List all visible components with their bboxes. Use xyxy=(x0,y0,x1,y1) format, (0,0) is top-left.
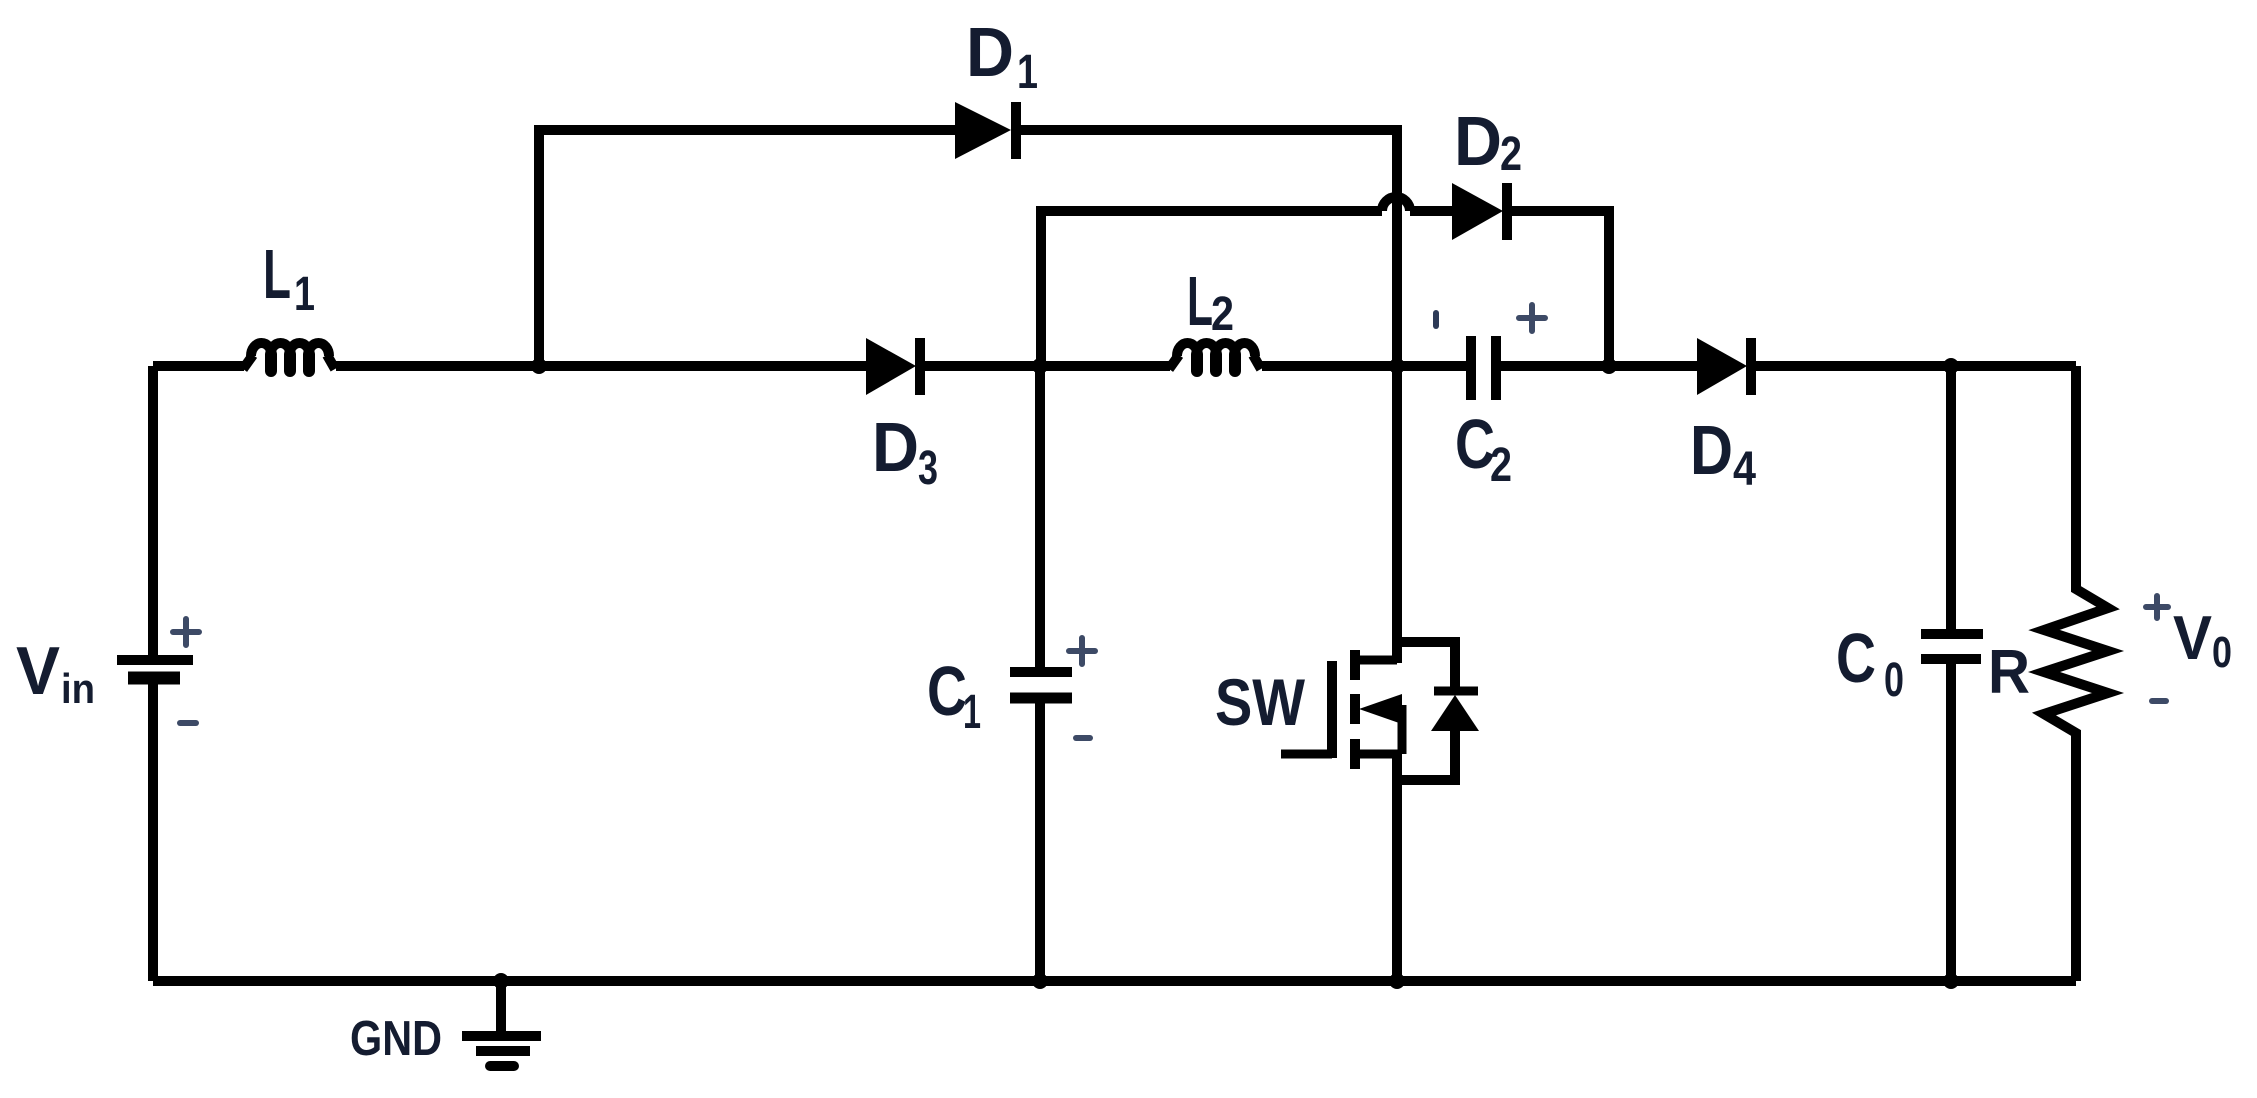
svg-text:4: 4 xyxy=(1733,443,1756,496)
svg-text:R: R xyxy=(1988,638,2030,707)
svg-text:SW: SW xyxy=(1215,665,1306,739)
svg-text:in: in xyxy=(61,665,95,712)
svg-text:1: 1 xyxy=(963,686,981,739)
svg-text:3: 3 xyxy=(918,442,938,495)
svg-text:2: 2 xyxy=(1490,439,1512,492)
svg-text:D: D xyxy=(1690,411,1733,489)
svg-text:D: D xyxy=(872,408,919,486)
svg-text:L: L xyxy=(263,235,291,313)
svg-text:D: D xyxy=(966,13,1014,91)
svg-text:V: V xyxy=(2173,604,2212,673)
svg-text:C: C xyxy=(927,652,967,730)
svg-text:2: 2 xyxy=(1500,128,1522,181)
svg-text:2: 2 xyxy=(1211,288,1234,341)
svg-text:1: 1 xyxy=(1017,46,1038,99)
svg-text:D: D xyxy=(1454,102,1502,180)
svg-text:C: C xyxy=(1836,619,1876,697)
svg-text:0: 0 xyxy=(2212,628,2232,677)
svg-text:1: 1 xyxy=(294,268,315,321)
svg-text:C: C xyxy=(1455,405,1495,483)
svg-text:L: L xyxy=(1187,262,1213,340)
svg-text:V: V xyxy=(16,633,60,709)
svg-text:GND: GND xyxy=(350,1012,442,1066)
svg-text:0: 0 xyxy=(1884,654,1904,707)
